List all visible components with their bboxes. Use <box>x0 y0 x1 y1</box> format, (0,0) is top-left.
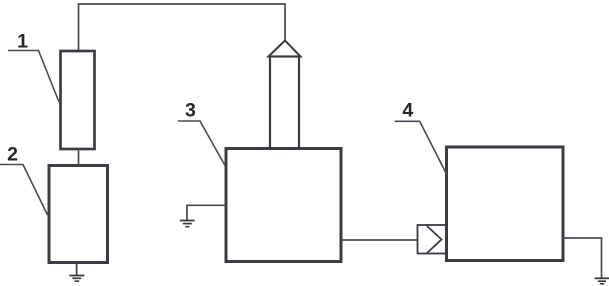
antenna tube on block 3 <box>270 57 299 149</box>
block 1 <box>61 51 95 149</box>
ground right of block 4 <box>595 278 609 284</box>
label 1 leader line <box>8 51 59 103</box>
wire block4 right side to ground <box>563 238 602 278</box>
svg-text:3: 3 <box>185 100 196 122</box>
svg-text:4: 4 <box>402 100 413 122</box>
wire from block1 top to antenna tip <box>79 4 286 51</box>
svg-text:1: 1 <box>17 31 28 53</box>
wire block3 to buffer symbol <box>341 239 418 241</box>
antenna tip triangle <box>269 41 301 57</box>
svg-text:2: 2 <box>7 144 18 166</box>
label 4 leader line <box>395 121 447 174</box>
buffer/connector symbol box <box>418 225 448 254</box>
wire block3 left side to ground <box>187 205 226 220</box>
ground left of block 3 <box>180 221 195 227</box>
label 3 leader line <box>178 121 225 166</box>
block 4 <box>447 147 564 261</box>
buffer chevron <box>427 226 442 253</box>
label 2 leader line <box>0 165 48 216</box>
ground under block 2 <box>69 263 84 281</box>
block 2 <box>49 166 108 263</box>
wire block1 to block2 <box>78 149 80 166</box>
block 3 <box>226 149 341 262</box>
